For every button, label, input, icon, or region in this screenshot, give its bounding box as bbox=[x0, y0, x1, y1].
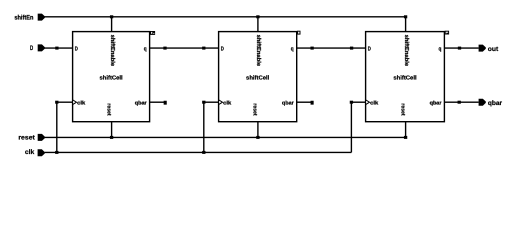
wire: clk into cell I3 pin clk bbox=[351, 101, 365, 103]
svg-text:shiftEn: shiftEn bbox=[14, 14, 33, 21]
joint dot on net q1 bbox=[163, 47, 166, 50]
svg-text:qbar: qbar bbox=[488, 100, 503, 107]
junction: reset bus tap I1 bbox=[110, 136, 113, 139]
wire: clk riser to cell I1 bbox=[56, 102, 58, 152]
wire: net q2, cell I2 q to cell I3 D bbox=[297, 47, 366, 49]
wire: net qbar, cell I3 qbar to qbar port bbox=[444, 101, 478, 103]
instance name mark I2 bbox=[298, 31, 300, 34]
svg-text:shiftEnable: shiftEnable bbox=[255, 35, 262, 67]
svg-text:D: D bbox=[75, 46, 78, 52]
wire: shiftEn bus (horizontal net at top) bbox=[45, 16, 406, 18]
svg-text:shiftCell: shiftCell bbox=[393, 74, 417, 81]
wire: clk into cell I2 pin clk bbox=[204, 101, 219, 103]
shift register cell I1 (shiftCell symbol) bbox=[73, 32, 150, 122]
input port reset bbox=[38, 134, 45, 141]
open-end square on I1 qbar bbox=[164, 101, 167, 105]
output port out bbox=[479, 45, 486, 52]
svg-text:shiftCell: shiftCell bbox=[100, 74, 124, 81]
svg-text:clk: clk bbox=[25, 149, 35, 156]
joint dot on net qbar bbox=[458, 101, 461, 104]
wire: clk into cell I1 pin clk bbox=[57, 101, 73, 103]
svg-text:qbar: qbar bbox=[430, 101, 443, 107]
wire: reset bus bbox=[45, 136, 406, 138]
shift register cell I2 (shiftCell symbol) bbox=[219, 32, 297, 122]
junction: shiftEn bus / I2 tap bbox=[256, 15, 259, 18]
joint dot on net q2 (2) bbox=[350, 47, 353, 50]
svg-text:shiftEnable: shiftEnable bbox=[109, 35, 116, 67]
svg-text:D: D bbox=[221, 46, 224, 52]
svg-text:reset: reset bbox=[105, 103, 111, 115]
wire: reset riser to cell I1 bottom pin bbox=[111, 122, 113, 138]
wire: shiftEn drop to cell I2 top pin bbox=[257, 17, 259, 32]
wire: shiftEn drop to cell I3 top pin bbox=[405, 17, 407, 32]
wire: D port to cell I1 pin D bbox=[45, 47, 73, 49]
input port D bbox=[38, 44, 45, 51]
junction: clk corner at cell I1 bbox=[55, 101, 58, 104]
svg-text:reset: reset bbox=[18, 135, 35, 142]
wire: clk bus bbox=[45, 151, 352, 153]
junction: shiftEn bus corner at I3 bbox=[404, 15, 407, 18]
input port shiftEn bbox=[38, 14, 45, 21]
junction: reset bus tap I3 bbox=[404, 136, 407, 139]
svg-text:shiftEnable: shiftEnable bbox=[403, 35, 410, 67]
svg-text:clk: clk bbox=[370, 101, 378, 107]
joint dot on net q2 bbox=[310, 47, 313, 50]
wire: shiftEn drop to cell I1 top pin bbox=[111, 17, 113, 32]
svg-text:D: D bbox=[30, 45, 33, 52]
wire: cell I2 qbar stub bbox=[297, 101, 311, 103]
svg-text:D: D bbox=[368, 46, 371, 52]
joint dot on net D bbox=[55, 47, 58, 50]
instance name mark I3 bbox=[445, 31, 448, 34]
joint dot on net q1 (2) bbox=[202, 47, 205, 50]
junction: shiftEn bus / I1 tap bbox=[110, 15, 113, 18]
wire: clk riser to cell I3 bbox=[350, 102, 352, 152]
junction: clk bus tap I1 bbox=[55, 151, 58, 154]
wire: net out, cell I3 q to out port bbox=[444, 47, 478, 49]
wire: clk riser to cell I2 bbox=[203, 102, 205, 152]
svg-text:q: q bbox=[144, 46, 147, 52]
open-end square on I2 qbar bbox=[311, 101, 314, 105]
svg-text:clk: clk bbox=[223, 101, 231, 107]
wire: reset riser to cell I3 bottom pin bbox=[405, 122, 407, 138]
input port clk bbox=[38, 149, 45, 156]
junction: reset bus tap I2 bbox=[256, 136, 259, 139]
output port qbar bbox=[479, 99, 486, 106]
instance name mark I1 bbox=[150, 31, 155, 35]
svg-text:out: out bbox=[488, 46, 499, 53]
junction: clk bus tap I2 bbox=[202, 151, 205, 154]
junction: clk corner at cell I3 bbox=[350, 101, 353, 104]
shift register cell I3 (shiftCell symbol) bbox=[366, 32, 445, 122]
svg-text:qbar: qbar bbox=[135, 101, 148, 107]
joint dot on net out bbox=[458, 47, 461, 50]
svg-text:reset: reset bbox=[252, 103, 258, 115]
wire: net q1, cell I1 q to cell I2 D bbox=[150, 47, 219, 49]
wire: reset riser to cell I2 bottom pin bbox=[257, 122, 259, 138]
wire: cell I1 qbar stub bbox=[150, 101, 165, 103]
svg-text:reset: reset bbox=[399, 103, 405, 115]
svg-text:shiftCell: shiftCell bbox=[246, 74, 270, 81]
svg-text:qbar: qbar bbox=[282, 101, 295, 107]
svg-text:q: q bbox=[439, 46, 442, 52]
svg-text:clk: clk bbox=[77, 101, 85, 107]
junction: clk corner at cell I2 bbox=[202, 101, 205, 104]
svg-text:q: q bbox=[291, 46, 294, 52]
